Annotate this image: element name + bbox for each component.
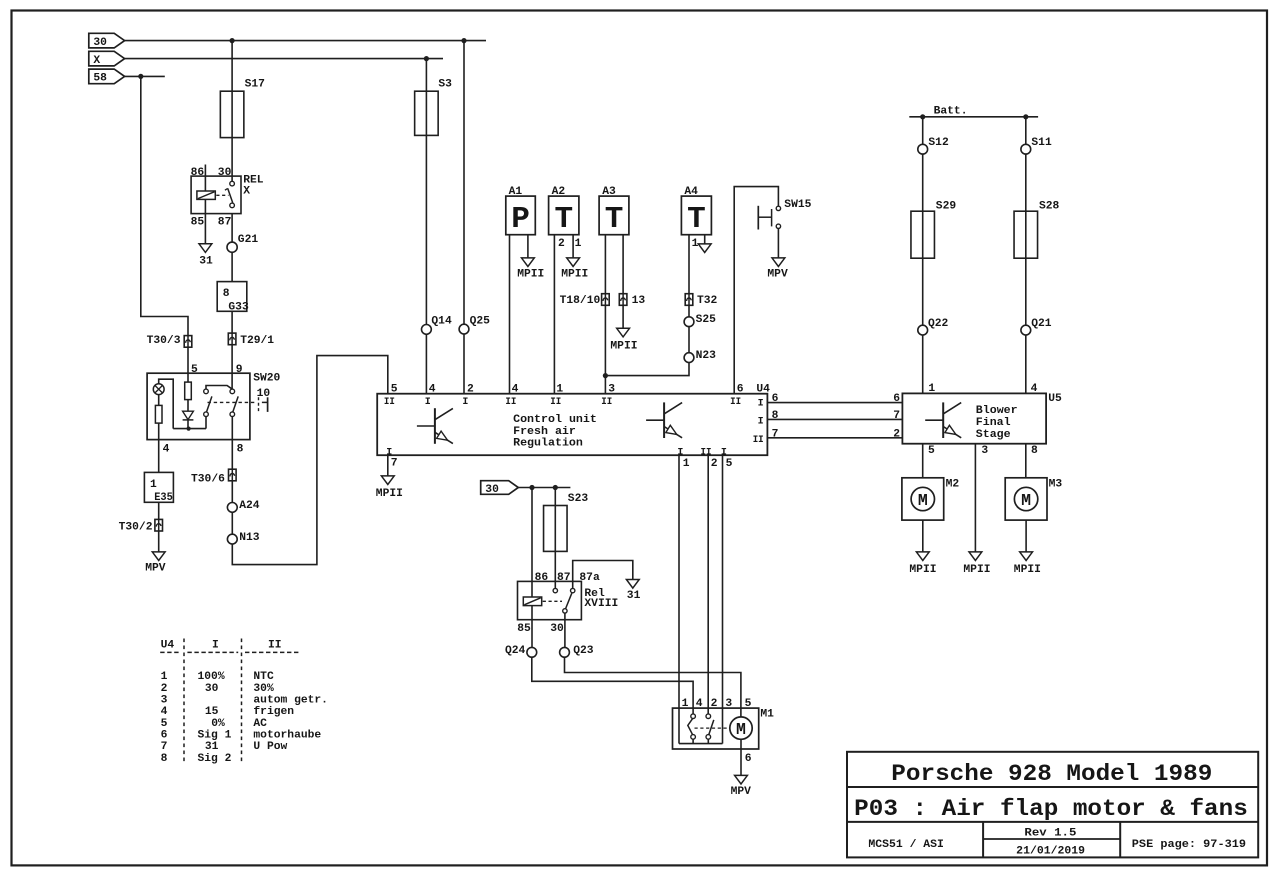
svg-text:Sig 2: Sig 2 — [198, 753, 232, 765]
wire G33 to T29/1 — [231, 311, 233, 333]
svg-text:I: I — [462, 397, 468, 408]
wire resistor to pin 4 — [158, 423, 160, 472]
node Q24 — [527, 647, 537, 657]
wire lamp top loop — [159, 379, 174, 428]
svg-text:Blower: Blower — [976, 405, 1018, 417]
wire U4 pin5 to M1 pin 3 — [722, 455, 724, 708]
wire T30/3 to SW20 pin 5 — [187, 347, 189, 373]
wire S11 to fuse S28 — [1025, 154, 1027, 211]
M1 switch1 lower contact — [691, 735, 696, 740]
SW20 contact pair 2 upper — [230, 389, 235, 394]
svg-text:1: 1 — [556, 384, 563, 396]
wire A4 right to ground — [704, 235, 706, 244]
svg-text:4: 4 — [163, 443, 170, 455]
svg-text:MPII: MPII — [909, 564, 936, 576]
node N13 — [227, 534, 237, 544]
svg-text:T30/2: T30/2 — [119, 521, 153, 533]
svg-text:5: 5 — [928, 445, 935, 457]
relay Rel XVIII blade — [566, 593, 572, 609]
relay REL X coil — [197, 191, 215, 199]
motor M3 box — [1005, 478, 1047, 520]
wire Batt. bus — [909, 116, 1038, 118]
svg-text:1: 1 — [161, 671, 168, 683]
svg-text:85: 85 — [191, 217, 205, 229]
svg-text:II: II — [268, 640, 282, 652]
wire net 58 down-right to T30/3 — [141, 76, 188, 335]
lamp symbol in SW20 — [153, 384, 164, 395]
node S12 — [918, 144, 928, 154]
svg-text:U5: U5 — [1048, 393, 1062, 405]
svg-text:100%: 100% — [198, 671, 225, 683]
svg-text:MPV: MPV — [767, 269, 788, 281]
fuse S23 — [544, 506, 568, 552]
svg-text:Q25: Q25 — [470, 316, 491, 328]
svg-text:87: 87 — [557, 572, 571, 584]
wire A1 right to MPII — [527, 235, 529, 258]
svg-text:1: 1 — [683, 458, 690, 470]
svg-text:31: 31 — [199, 255, 213, 267]
junction Batt-S11 — [1023, 114, 1028, 119]
wire Q22 to U5 pin 1 — [922, 335, 924, 393]
ground symbol MPV (left) — [152, 552, 165, 561]
SW15 actuator — [757, 206, 759, 230]
svg-text:T: T — [554, 202, 573, 237]
svg-text:7: 7 — [893, 410, 900, 422]
wire Q23 to M1 pin 5 — [565, 657, 741, 717]
wire U5 pin5 to motor M2 — [922, 444, 924, 478]
SW20 actuator link — [262, 401, 268, 403]
sensor A3 box — [599, 196, 629, 235]
svg-text:T29/1: T29/1 — [240, 335, 274, 347]
wire T32 to S25 — [688, 305, 690, 317]
fuse S28 — [1014, 211, 1038, 258]
svg-text:1: 1 — [575, 238, 582, 250]
svg-text:Porsche 928 Model 1989: Porsche 928 Model 1989 — [891, 761, 1212, 787]
svg-text:13: 13 — [632, 295, 646, 307]
M1 inner right rail (pin 3) — [722, 708, 724, 744]
motor M2 circle — [911, 487, 934, 510]
M1 coupling dashes — [695, 727, 730, 729]
node S11 — [1021, 144, 1031, 154]
wire A2 pin1 to MPII — [572, 235, 574, 258]
svg-text:II: II — [753, 435, 764, 446]
svg-text:2: 2 — [711, 698, 718, 710]
connector T30/6 — [229, 469, 237, 481]
transistor in U4 right — [663, 402, 665, 438]
svg-text:Regulation: Regulation — [513, 438, 583, 450]
wire net X down to fuse S3 — [425, 59, 427, 92]
svg-text:SW15: SW15 — [784, 199, 811, 211]
svg-text:7: 7 — [772, 428, 779, 440]
svg-text:9: 9 — [236, 364, 243, 376]
SW20 contact pair 2 lower — [230, 412, 235, 417]
svg-text:T18/10: T18/10 — [560, 295, 601, 307]
ground MPII under U5 pin3 — [969, 552, 982, 561]
title block divider 1 — [847, 786, 1258, 788]
svg-text:E35: E35 — [154, 492, 173, 504]
svg-text:4: 4 — [429, 384, 436, 396]
wire pin5 to resistor (SW20) — [187, 373, 189, 382]
M1 switch2 upper contact — [706, 714, 711, 719]
SW20 blade 1 — [206, 396, 212, 412]
svg-text:2: 2 — [161, 683, 168, 695]
svg-text:U4: U4 — [756, 383, 770, 395]
SW20 crossover wire — [206, 386, 232, 390]
svg-text:SW20: SW20 — [253, 373, 280, 385]
wire coil to pin 85 / Q24 — [531, 606, 533, 648]
M1 switch1 upper contact — [691, 714, 696, 719]
M1 switch1 lower stub — [692, 739, 694, 743]
SW20 actuator bar — [267, 397, 269, 412]
title block divider 2 — [847, 821, 1258, 823]
svg-text:2: 2 — [467, 384, 474, 396]
relay Rel XVIII dashes — [543, 600, 562, 602]
wire M2 to MPII — [922, 520, 924, 552]
svg-text:6: 6 — [893, 393, 900, 405]
wire U4 pin2 to M1 pin 2 — [707, 455, 709, 714]
wire A4 pin1 to T32 — [688, 235, 690, 294]
wire net 30 horizontal — [125, 40, 486, 42]
net tag 30 (top) — [89, 33, 125, 48]
svg-text:XVIII: XVIII — [584, 598, 618, 610]
relay Rel XVIII pivot contact — [563, 609, 567, 613]
svg-text:T: T — [605, 202, 624, 237]
transistor in U5 — [942, 402, 944, 438]
blower final stage U5 box — [902, 393, 1046, 443]
svg-text:MPII: MPII — [561, 269, 588, 281]
wire G21 to G33 — [231, 252, 233, 281]
SW20 contact pair 1 lower — [204, 412, 209, 417]
svg-text:5: 5 — [745, 698, 752, 710]
svg-text:6: 6 — [161, 730, 168, 742]
relay REL X actuating dashes — [216, 194, 228, 196]
wire Batt to S11 — [1025, 117, 1027, 145]
svg-text:Stage: Stage — [976, 429, 1011, 441]
svg-text:30: 30 — [218, 167, 232, 179]
fuse S3 — [415, 91, 439, 135]
wire net 58 horizontal — [125, 75, 165, 77]
svg-text:Control unit: Control unit — [513, 414, 597, 426]
wire resistor to diode — [187, 400, 189, 412]
svg-text:motorhaube: motorhaube — [253, 730, 321, 742]
junction tag30-S23 — [553, 485, 558, 490]
svg-text:Sig 1: Sig 1 — [198, 730, 232, 742]
sensor A4 box — [681, 196, 711, 235]
svg-text:2: 2 — [711, 458, 718, 470]
svg-text:MPII: MPII — [610, 340, 637, 352]
wire A3 right to connector 13 — [622, 235, 624, 294]
svg-text:autom getr.: autom getr. — [253, 695, 328, 707]
SW20 actuator bar dashed — [258, 397, 260, 412]
svg-text:I: I — [758, 417, 764, 428]
wire S3 to Q14 — [425, 135, 427, 324]
node Q21 — [1021, 325, 1031, 335]
ground symbol 31 under relay — [199, 244, 212, 253]
svg-text:A4: A4 — [684, 186, 698, 198]
M1 switch1 blade — [688, 719, 693, 735]
wire connector13 to MPII — [622, 305, 624, 328]
svg-text:MPV: MPV — [731, 786, 752, 798]
title block vertical divider left — [982, 822, 984, 858]
wire S29 to Q22 — [922, 258, 924, 325]
ground under A4 right pin — [698, 244, 711, 253]
svg-text:S25: S25 — [696, 314, 717, 326]
svg-text:7: 7 — [391, 457, 398, 469]
wire Q14 to U4 pin 4 — [425, 334, 427, 393]
sensor A2 box — [549, 196, 579, 235]
relay REL X contact 30 — [230, 181, 235, 186]
net tag 58 — [89, 69, 125, 84]
svg-text:frigen: frigen — [253, 706, 294, 718]
connector T30/3 — [184, 336, 192, 348]
svg-text:M3: M3 — [1049, 479, 1063, 491]
svg-text:A1: A1 — [509, 186, 523, 198]
wire Q24 to M1 pin 4 — [532, 657, 693, 714]
svg-text:M: M — [1021, 491, 1031, 510]
relay Rel XVIII contact 87 — [553, 588, 557, 592]
svg-text:S29: S29 — [936, 200, 957, 212]
wire U4 pin6 to U5 pin6 — [767, 402, 902, 404]
relay REL X box — [191, 176, 241, 214]
svg-text:S3: S3 — [438, 79, 452, 91]
wire pivot to pin 30 / Q23 — [564, 613, 566, 647]
svg-text:21/01/2019: 21/01/2019 — [1016, 846, 1085, 858]
relay REL X pin 86 stub — [204, 165, 206, 192]
junction on net X at S3 branch — [424, 56, 429, 61]
svg-text:87: 87 — [218, 217, 232, 229]
svg-text:3: 3 — [161, 695, 168, 707]
relay REL X contact 87 — [230, 203, 235, 208]
net tag 30 (bottom) — [481, 481, 519, 495]
wire U5 pin3 to MPII — [974, 444, 976, 552]
node N23 — [684, 353, 694, 363]
svg-text:II: II — [730, 397, 741, 408]
svg-text:AC: AC — [253, 718, 267, 730]
junction on net 30 at S17 branch — [230, 38, 235, 43]
svg-text:II: II — [550, 397, 561, 408]
svg-text:MPII: MPII — [1014, 564, 1041, 576]
SW20 actuator dashes to pin 10 — [208, 401, 257, 403]
ground 31 (Rel XVIII) — [626, 580, 639, 589]
svg-text:U Pow: U Pow — [253, 741, 287, 753]
svg-text:S12: S12 — [928, 137, 949, 149]
switch SW15 lower contact — [776, 224, 780, 228]
ground MPII under U4 pin7 — [381, 476, 394, 485]
svg-text:I: I — [758, 398, 764, 409]
connector block G33 — [217, 282, 247, 312]
wire T30/2 to MPV ground — [158, 531, 160, 552]
node Q25 — [459, 324, 469, 334]
switch SW15 blade — [771, 209, 773, 226]
svg-text:M: M — [918, 491, 928, 510]
svg-text:86: 86 — [191, 167, 205, 179]
title block outer box — [847, 752, 1258, 858]
svg-text:T: T — [687, 202, 706, 237]
svg-text:1: 1 — [682, 698, 689, 710]
SW20 blade 2 — [233, 396, 239, 412]
wire N23 to junction at pin 3 — [605, 363, 689, 376]
wire T30/6 to A24 — [231, 481, 233, 503]
svg-text:MPII: MPII — [963, 564, 990, 576]
wire A24 to N13 — [231, 512, 233, 534]
wire net 30 down to fuse S17 — [231, 41, 233, 92]
wire T29/1 to SW20 pin 9 — [231, 345, 233, 374]
wire A1 to U4 pin 4b — [509, 235, 511, 394]
wire U5 pin8 to motor M3 — [1025, 444, 1027, 478]
junction on net 30 at Q25 branch — [461, 38, 466, 43]
svg-text:8: 8 — [237, 443, 244, 455]
wire M3 to MPII — [1025, 520, 1027, 552]
diode in SW20 — [183, 411, 194, 419]
wire junction to relay pin 86 — [531, 488, 533, 598]
node Q22 — [918, 325, 928, 335]
svg-text:8: 8 — [161, 753, 168, 765]
air flap motor M1 box — [673, 708, 759, 749]
svg-text:Q14: Q14 — [431, 316, 452, 328]
wire lamp to resistor — [158, 395, 160, 406]
svg-text:5: 5 — [391, 384, 398, 396]
svg-text:85: 85 — [517, 623, 531, 635]
wire U4 pin1 to M1 pin 1 — [678, 455, 680, 708]
svg-text:S28: S28 — [1039, 200, 1060, 212]
svg-text:NTC: NTC — [253, 671, 274, 683]
M1 inner left rail (pin 1) — [678, 708, 680, 744]
table dashed underline — [160, 651, 181, 653]
svg-text:Rev 1.5: Rev 1.5 — [1024, 827, 1076, 839]
node Q14 — [422, 325, 432, 335]
wire U4 pin8 to U5 pin7 — [767, 418, 902, 420]
svg-text:II: II — [601, 397, 612, 408]
ground MPII under A2 — [567, 258, 580, 267]
connector 13 — [619, 294, 627, 306]
connector T18/10 — [602, 294, 610, 306]
svg-text:4: 4 — [696, 698, 703, 710]
svg-text:S11: S11 — [1031, 137, 1052, 149]
svg-text:X: X — [243, 186, 250, 198]
svg-text:30%: 30% — [253, 683, 274, 695]
svg-text:Final: Final — [976, 417, 1011, 429]
junction tag30-relay86 — [529, 485, 534, 490]
control unit U4 box — [377, 394, 767, 456]
svg-text:M2: M2 — [946, 479, 960, 491]
M1 inner bottom bus — [679, 743, 723, 745]
relay Rel XVIII coil — [523, 597, 541, 606]
svg-text:30: 30 — [205, 683, 219, 695]
table dashed column separator 1 — [183, 639, 185, 763]
svg-text:Q22: Q22 — [928, 318, 949, 330]
wire SW15 to U4 pin 6 — [734, 187, 778, 394]
wire net 30 down to Q25 — [463, 41, 465, 325]
SW20 contact pair 1 upper — [204, 389, 209, 394]
node S25 — [684, 317, 694, 327]
svg-text:31: 31 — [205, 741, 219, 753]
svg-text:2: 2 — [558, 238, 565, 250]
ground MPII under M3 — [1020, 552, 1033, 561]
svg-text:4: 4 — [512, 384, 519, 396]
net tag X — [89, 51, 125, 66]
transistor in U4 left — [434, 408, 436, 444]
connector T30/2 — [155, 519, 163, 531]
wire Q25 to U4 pin 2 — [463, 334, 465, 394]
svg-text:A3: A3 — [602, 186, 616, 198]
svg-text:PSE page: 97-319: PSE page: 97-319 — [1132, 839, 1246, 851]
svg-text:N23: N23 — [696, 350, 717, 362]
svg-text:MCS51 / ASI: MCS51 / ASI — [868, 839, 944, 851]
wire T18/10 to U4 pin 3 — [604, 305, 606, 393]
wire M1 motor to pin 6 / MPV — [740, 739, 742, 775]
svg-text:8: 8 — [1031, 445, 1038, 457]
switch unit SW20 box — [147, 373, 250, 439]
svg-text:P03 : Air flap motor & fans: P03 : Air flap motor & fans — [854, 796, 1248, 822]
lamp unit E35 box — [144, 472, 173, 502]
svg-text:M: M — [736, 720, 746, 739]
svg-text:A24: A24 — [239, 500, 260, 512]
svg-text:II: II — [505, 397, 516, 408]
svg-text:Q21: Q21 — [1031, 318, 1052, 330]
M1 switch2 lower stub — [707, 739, 709, 743]
wire U4 pin7r to U5 pin2 — [767, 437, 902, 439]
svg-text:U4: U4 — [161, 640, 175, 652]
svg-text:86: 86 — [535, 572, 549, 584]
svg-text:P: P — [511, 202, 530, 237]
relay REL X pin 85 wire to ground 31 — [204, 199, 206, 243]
svg-text:10: 10 — [257, 388, 271, 400]
wire SW20 bottom bus — [173, 428, 206, 430]
svg-text:87a: 87a — [579, 572, 600, 584]
connector T32 — [685, 294, 693, 306]
svg-text:MPV: MPV — [145, 563, 166, 575]
switch SW15 upper contact — [776, 206, 780, 210]
ground MPII under A3 — [617, 328, 630, 337]
svg-text:N13: N13 — [239, 532, 260, 544]
svg-text:6: 6 — [737, 384, 744, 396]
svg-text:Fresh air: Fresh air — [513, 426, 576, 438]
svg-text:I: I — [425, 397, 431, 408]
svg-text:30: 30 — [550, 623, 564, 635]
M1 switch2 lower contact — [706, 735, 711, 740]
sensor A1 box — [506, 196, 536, 235]
wire U4 pin7 to MPII — [387, 455, 389, 476]
svg-text:M1: M1 — [760, 708, 774, 720]
wire lower contact1 to bus — [205, 417, 207, 429]
M1 switch2 blade — [709, 720, 714, 735]
svg-text:4: 4 — [161, 706, 168, 718]
svg-text:S23: S23 — [568, 493, 589, 505]
wire N13 to U4 pin 5 (long route) — [232, 356, 387, 565]
svg-text:3: 3 — [725, 698, 732, 710]
svg-text:2: 2 — [893, 428, 900, 440]
node A24 — [227, 503, 237, 513]
junction diode-bus — [187, 427, 191, 431]
svg-text:31: 31 — [627, 590, 641, 602]
svg-text:30: 30 — [93, 37, 107, 49]
wire S25 to N23 — [688, 327, 690, 353]
relay REL X switch blade — [228, 188, 233, 203]
svg-text:6: 6 — [745, 753, 752, 765]
svg-text:8: 8 — [223, 288, 230, 300]
svg-text:X: X — [93, 55, 100, 67]
wire pin9 into SW20 — [231, 373, 233, 389]
svg-text:MPII: MPII — [376, 488, 403, 500]
ground MPII under A1 — [522, 258, 535, 267]
svg-text:0%: 0% — [211, 718, 225, 730]
svg-text:Q24: Q24 — [505, 645, 526, 657]
table dashed column separator 2 — [241, 639, 243, 763]
wire A3 left to T18/10 — [604, 235, 606, 294]
wire lower contact2 to pin 8 — [231, 417, 233, 470]
motor M2 box — [902, 478, 944, 520]
svg-text:II: II — [384, 397, 395, 408]
